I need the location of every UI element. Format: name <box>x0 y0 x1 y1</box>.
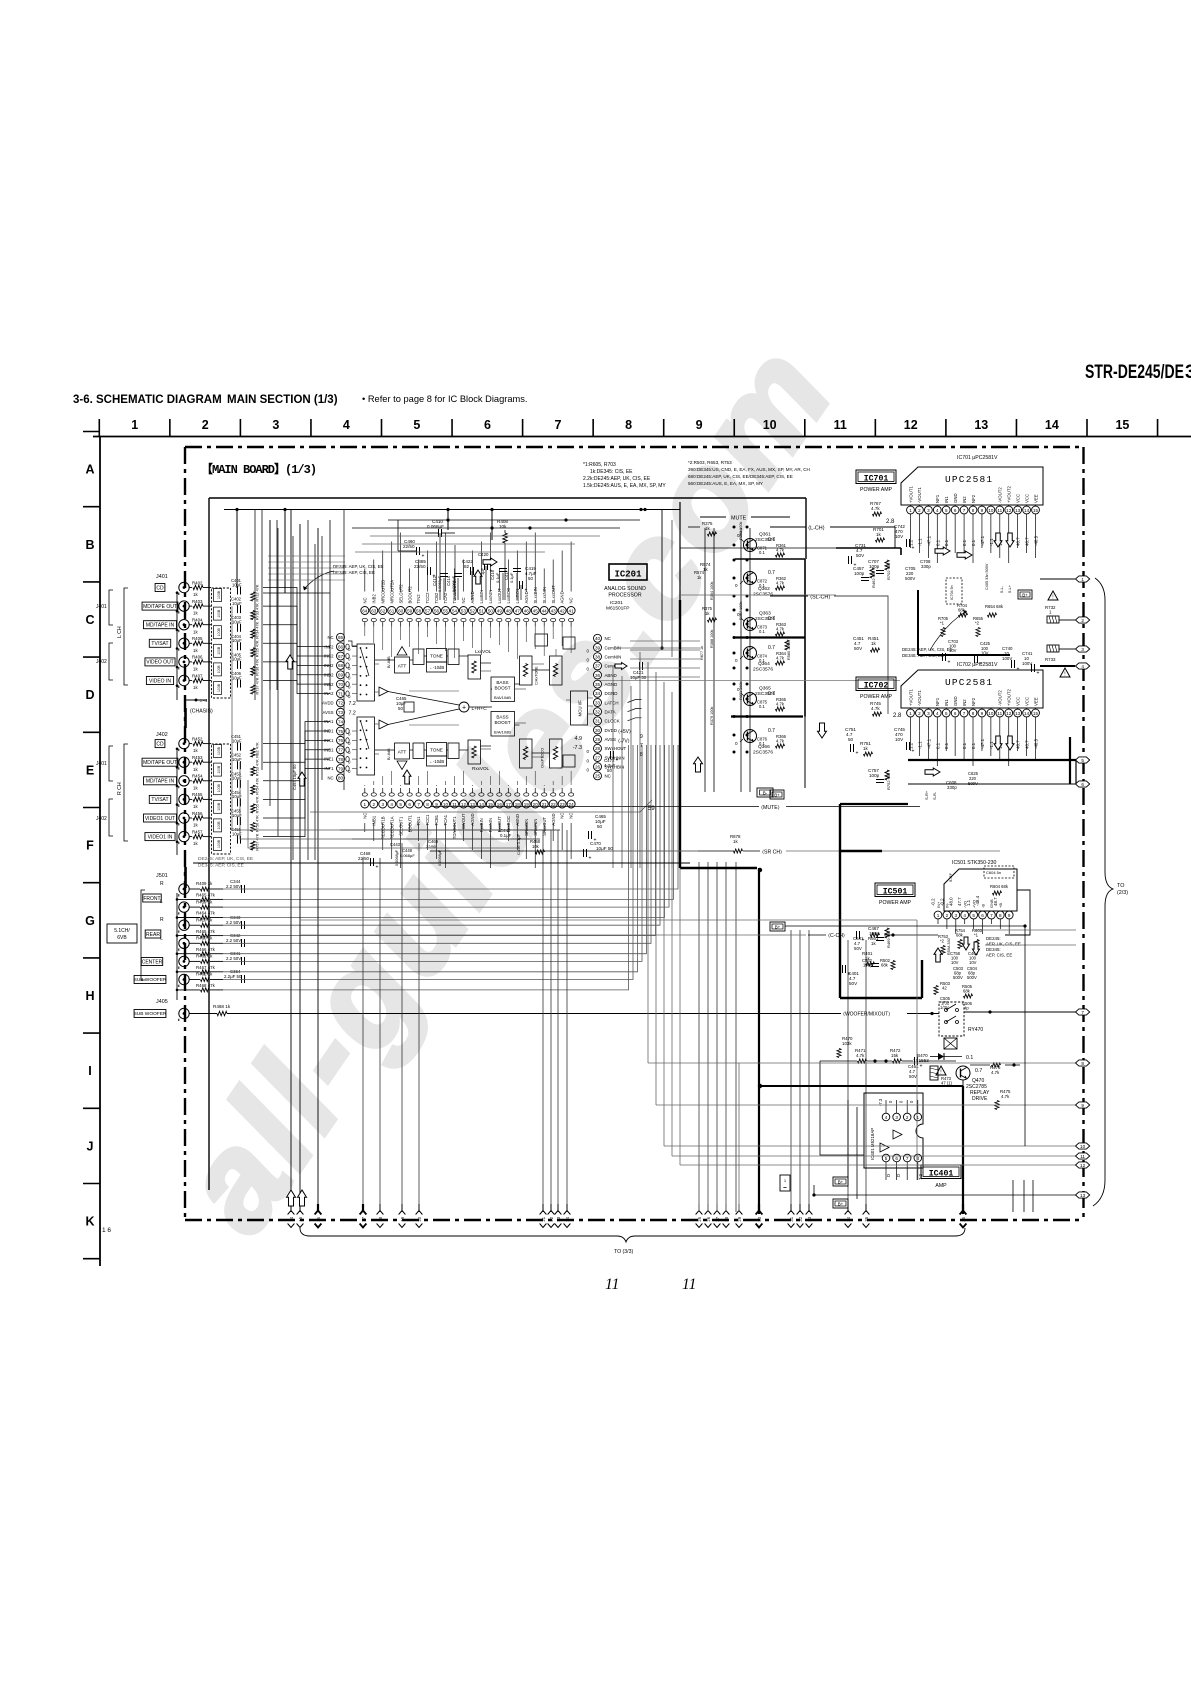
svg-text:5: 5 <box>1081 758 1084 763</box>
svg-text:12: 12 <box>1006 508 1012 513</box>
svg-text:41: 41 <box>569 608 575 613</box>
svg-text:7: 7 <box>906 1156 909 1161</box>
svg-text:61: 61 <box>389 608 395 613</box>
svg-text:R452: R452 <box>192 736 203 741</box>
svg-text:5: 5 <box>413 418 420 432</box>
svg-text:4: 4 <box>885 1115 888 1120</box>
svg-text:0.0068μF: 0.0068μF <box>395 849 399 866</box>
block arrow down right of transistors <box>818 723 827 738</box>
svg-text:10: 10 <box>1080 1144 1086 1149</box>
svg-text:+: + <box>376 865 379 871</box>
svg-text:0.1: 0.1 <box>759 704 765 709</box>
svg-text:1k: 1k <box>193 767 198 772</box>
svg-text:50V: 50V <box>909 1074 917 1079</box>
svg-text:R733: R733 <box>1045 657 1056 662</box>
svg-text:-VOUT2: -VOUT2 <box>998 487 1003 503</box>
capacitor C453 10uF 50 <box>237 780 239 788</box>
svg-text:-48.5: -48.5 <box>1034 535 1039 546</box>
svg-text:12: 12 <box>1006 711 1012 716</box>
svg-text:17: 17 <box>361 1216 366 1221</box>
svg-text:H: H <box>85 989 94 1003</box>
svg-text:50: 50 <box>597 824 603 829</box>
svg-text:CENTER: CENTER <box>142 959 163 965</box>
svg-text:IC702 μPC2581V: IC702 μPC2581V <box>957 662 998 668</box>
svg-text:TCC2: TCC2 <box>425 592 430 604</box>
svg-text:IC701: IC701 <box>864 475 889 484</box>
relay RY470 dashed box <box>939 1002 964 1036</box>
IC201 internal selector block upper <box>357 644 375 701</box>
svg-text:8: 8 <box>972 508 975 513</box>
jack speaker 1 <box>179 884 189 894</box>
svg-text:13: 13 <box>974 418 988 432</box>
svg-text:J501: J501 <box>156 873 168 879</box>
jack VIDEO IN L-ch <box>179 675 189 685</box>
connector header CN dashed box R <box>212 744 231 854</box>
connector 21 bottom edge <box>542 1204 544 1211</box>
svg-text:1: 1 <box>937 913 940 918</box>
wire AGND long bus <box>193 862 690 864</box>
IC201 internal RxxVOL lower <box>468 740 481 764</box>
svg-text:-47.1: -47.1 <box>980 738 985 749</box>
svg-text:4.7k: 4.7k <box>856 1053 865 1058</box>
warning triangle a <box>1048 591 1058 600</box>
svg-text:42: 42 <box>560 608 566 613</box>
svg-text:AEP, CIS, EE: AEP, CIS, EE <box>986 953 1012 958</box>
svg-text:7: 7 <box>417 802 420 807</box>
svg-text:⟨WOOFER/MIXOUT⟩: ⟨WOOFER/MIXOUT⟩ <box>843 1012 890 1018</box>
jack speaker 3 <box>179 920 189 930</box>
transistor Q362 2SC3576 <box>744 572 757 585</box>
svg-text:R CH: R CH <box>117 782 123 795</box>
svg-text:DE245: AEP, UK, CIS, EE: DE245: AEP, UK, CIS, EE <box>902 647 953 652</box>
svg-text:100B: 100B <box>217 590 221 599</box>
svg-text:31: 31 <box>789 1216 794 1221</box>
svg-text:34: 34 <box>595 691 601 696</box>
svg-text:+: + <box>856 751 859 757</box>
svg-text:5: 5 <box>945 711 948 716</box>
svg-text:NC: NC <box>362 597 367 603</box>
svg-text:1k: 1k <box>193 841 198 846</box>
jack CD L-ch <box>179 582 189 592</box>
svg-text:CD: CD <box>156 741 164 747</box>
wire IC501 gray outputs <box>975 929 1076 931</box>
svg-text:55: 55 <box>443 608 449 613</box>
svg-text:PROCESSOR: PROCESSOR <box>608 593 641 599</box>
svg-text:100B: 100B <box>217 646 221 655</box>
svg-text:50V: 50V <box>856 553 865 558</box>
svg-text:SUB WOOFER: SUB WOOFER <box>134 977 167 983</box>
svg-text:BASS: BASS <box>496 680 508 685</box>
svg-text:-1.1: -1.1 <box>989 538 994 546</box>
svg-text:-1.1: -1.1 <box>917 741 922 749</box>
svg-text:680:DE245:AEP, UK, CIS, EE/DE3: 680:DE245:AEP, UK, CIS, EE/DE345:AEP, CI… <box>688 474 793 479</box>
wire thick vertical right of IC702 <box>1069 737 1071 784</box>
svg-text:22/50: 22/50 <box>403 544 415 549</box>
resistor R756 47k <box>251 823 255 832</box>
svg-text:10μF 50: 10μF 50 <box>630 675 647 680</box>
connector 36 bottom edge <box>962 1204 964 1211</box>
IC201 internal bus wires <box>375 649 593 761</box>
main board dash-dot border <box>185 446 1084 448</box>
svg-text:4.7k: 4.7k <box>776 702 785 707</box>
svg-text:0.7: 0.7 <box>768 645 775 651</box>
wire top horizontals <box>388 519 640 521</box>
svg-text:12: 12 <box>1080 1163 1086 1168</box>
svg-text:10μF: 10μF <box>232 776 242 781</box>
svg-text:28: 28 <box>724 1216 729 1221</box>
svg-text:B+: B+ <box>1022 593 1028 598</box>
jack VIDEO OUT L-ch <box>179 657 189 667</box>
svg-text:IC501 STK350-230: IC501 STK350-230 <box>952 860 997 866</box>
svg-text:0.1: 0.1 <box>759 658 765 663</box>
wire thick vertical to connector 36 <box>962 1086 964 1214</box>
warning triangle b <box>1060 668 1070 677</box>
svg-text:82: 82 <box>464 564 470 569</box>
block arrow right IC702 <box>925 768 940 776</box>
svg-text:FRONT: FRONT <box>143 896 160 902</box>
wire vertical comb left routing <box>255 510 344 861</box>
svg-text:4: 4 <box>936 508 939 513</box>
jack CD R-ch <box>179 738 189 748</box>
svg-text:NC: NC <box>461 597 466 603</box>
svg-text:TO (3/3): TO (3/3) <box>614 1249 633 1255</box>
svg-text:VEE: VEE <box>1033 697 1038 706</box>
svg-text:• Refer to page 8 for IC Block: • Refer to page 8 for IC Block Diagrams. <box>362 394 528 404</box>
svg-text:76: 76 <box>338 738 344 743</box>
connector 34 bottom edge <box>847 1204 849 1211</box>
svg-text:2: 2 <box>202 418 209 432</box>
svg-text:1k:DE345: CIS, EE: 1k:DE345: CIS, EE <box>590 469 633 475</box>
svg-text:1: 1 <box>131 418 138 432</box>
svg-text:103k: 103k <box>842 1041 852 1046</box>
op-amp IC201 label box <box>609 564 647 580</box>
svg-text:3: 3 <box>272 418 279 432</box>
svg-text:330p: 330p <box>921 564 931 569</box>
wire vertical riser col3 <box>284 510 286 594</box>
svg-text:⟨MUTE⟩: ⟨MUTE⟩ <box>761 805 780 811</box>
svg-text:*1: *1 <box>974 933 979 938</box>
svg-text:15: 15 <box>1033 508 1039 513</box>
wire IC702 second out <box>908 783 1076 785</box>
svg-text:9: 9 <box>696 418 703 432</box>
wire B+ line <box>785 925 1025 927</box>
block arrow down IC701 b <box>1006 533 1014 547</box>
svg-text:R364 100k: R364 100k <box>710 582 714 600</box>
svg-text:NC: NC <box>569 813 574 819</box>
svg-text:4.7k: 4.7k <box>1001 1094 1010 1099</box>
svg-text:1k: 1k <box>193 667 198 672</box>
IC201 internal selector block lower <box>357 717 375 775</box>
svg-text:C420: C420 <box>478 552 489 557</box>
label small connector box <box>780 1175 790 1191</box>
row ruler line <box>99 437 101 1267</box>
svg-text:1k: 1k <box>193 592 198 597</box>
svg-text:1k: 1k <box>876 532 882 537</box>
svg-text:REAR: REAR <box>146 932 160 938</box>
transistor Q361 2SC3576 <box>744 539 757 552</box>
svg-text:9: 9 <box>1081 1103 1084 1108</box>
wire jack to board <box>189 836 192 838</box>
svg-text:14: 14 <box>1045 418 1059 432</box>
svg-text:0.1: 0.1 <box>935 539 940 546</box>
svg-text:47: 47 <box>515 608 521 613</box>
svg-text:9: 9 <box>981 508 984 513</box>
svg-text:100B: 100B <box>217 765 221 774</box>
svg-text:+: + <box>616 758 619 764</box>
svg-text:500V: 500V <box>967 975 977 980</box>
svg-text:NC: NC <box>605 636 611 641</box>
wire jack to board <box>189 761 192 763</box>
svg-text:TV/SAT: TV/SAT <box>151 641 168 647</box>
svg-text:9: 9 <box>640 734 643 740</box>
svg-text:2: 2 <box>918 508 921 513</box>
svg-text:C604 5n: C604 5n <box>986 870 1001 875</box>
svg-text:0.1: 0.1 <box>759 741 765 746</box>
svg-text:1k: 1k <box>193 685 198 690</box>
svg-text:42: 42 <box>942 986 947 991</box>
svg-text:45: 45 <box>533 608 539 613</box>
svg-text:18: 18 <box>515 802 521 807</box>
connector 19 bottom edge <box>401 1204 403 1211</box>
svg-text:100B: 100B <box>217 802 221 811</box>
svg-text:7: 7 <box>1081 1010 1084 1015</box>
wire IC701 input bus <box>836 547 901 549</box>
svg-text:R733 47K: R733 47K <box>256 603 260 620</box>
curve arrow R705 <box>930 612 965 650</box>
svg-text:21: 21 <box>542 802 548 807</box>
svg-text:(CHASIS): (CHASIS) <box>190 709 213 715</box>
svg-text:R459 1k: R459 1k <box>196 899 213 904</box>
svg-text:DRIVE: DRIVE <box>972 1096 988 1102</box>
svg-text:R654 68k: R654 68k <box>985 604 1004 609</box>
svg-text:1: 1 <box>1081 577 1084 582</box>
svg-text:14: 14 <box>1024 711 1030 716</box>
svg-text:IC201: IC201 <box>610 600 623 606</box>
svg-text:75: 75 <box>338 729 344 734</box>
svg-text:!: ! <box>1064 672 1065 678</box>
svg-text:30: 30 <box>757 1216 762 1221</box>
IC201 internal buffer upper <box>379 687 388 696</box>
svg-text:⟨+5V⟩: ⟨+5V⟩ <box>618 729 631 735</box>
svg-text:DE345:: DE345: <box>986 947 1001 952</box>
IC201 internal mixer node <box>459 702 469 712</box>
svg-text:7: 7 <box>963 711 966 716</box>
wire gray horizontals mid <box>600 680 900 682</box>
svg-text:16: 16 <box>497 802 503 807</box>
svg-text:R468 1k: R468 1k <box>213 1004 231 1009</box>
svg-text:+: + <box>848 972 851 978</box>
svg-text:50: 50 <box>398 706 403 711</box>
svg-text:28: 28 <box>595 746 601 751</box>
jack MD/TAPE OUT L-ch <box>179 601 189 611</box>
svg-text:-48.5: -48.5 <box>1034 738 1039 749</box>
svg-text:1 6: 1 6 <box>102 1227 111 1234</box>
svg-text:2.8: 2.8 <box>893 713 902 719</box>
wire left long verticals from bus <box>270 520 330 690</box>
svg-text:22/50: 22/50 <box>414 564 426 569</box>
svg-text:48: 48 <box>506 608 512 613</box>
wire jack to board <box>189 798 192 800</box>
svg-text:DE245:: DE245: <box>986 936 1001 941</box>
svg-text:100B: 100B <box>217 839 221 848</box>
svg-text:R455: R455 <box>192 792 203 797</box>
svg-text:NF2: NF2 <box>971 494 976 503</box>
svg-text:22: 22 <box>551 802 557 807</box>
svg-text:79: 79 <box>338 766 344 771</box>
svg-text:7: 7 <box>963 508 966 513</box>
warning triangle Q470 <box>936 1066 946 1075</box>
svg-text:10V: 10V <box>895 737 904 742</box>
svg-text:1k: 1k <box>193 648 198 653</box>
svg-text:R50A 330: R50A 330 <box>947 938 951 955</box>
svg-text:10μF: 10μF <box>232 638 242 643</box>
svg-text:10μF: 10μF <box>232 620 242 625</box>
svg-text:1k: 1k <box>871 941 876 946</box>
svg-text:71: 71 <box>338 691 344 696</box>
jack speaker 6 <box>179 974 189 984</box>
column ruler line <box>93 436 1191 438</box>
svg-text:3: 3 <box>927 508 930 513</box>
svg-text:8: 8 <box>999 913 1002 918</box>
svg-text:14: 14 <box>479 802 485 807</box>
capacitor C404 10uF <box>237 642 239 650</box>
IC401 top pins 4-1 <box>882 1113 890 1121</box>
svg-text:IN1: IN1 <box>944 699 949 706</box>
svg-text:+: + <box>912 546 915 552</box>
wire horizontal runs jacks to IC201 <box>263 588 330 837</box>
svg-text:4.7k: 4.7k <box>871 506 880 511</box>
svg-text:CemNIN: CemNIN <box>605 654 622 659</box>
svg-text:0.1: 0.1 <box>944 742 949 749</box>
svg-text:15: 15 <box>298 1216 303 1221</box>
svg-text:-47.1: -47.1 <box>926 535 931 546</box>
transistor Q363 2SC3576 <box>744 618 757 631</box>
svg-text:1: 1 <box>364 802 367 807</box>
svg-text:77: 77 <box>338 748 344 753</box>
svg-text:CLOCK: CLOCK <box>605 719 620 724</box>
svg-text:BASS: BASS <box>496 715 508 720</box>
connector 2 right edge <box>1076 617 1090 623</box>
svg-text:NC: NC <box>327 775 333 780</box>
bracket 5.1ch group <box>141 890 145 980</box>
svg-text:←-10dB: ←-10dB <box>429 759 445 764</box>
connector 3 right edge <box>1076 646 1090 652</box>
svg-text:TONE: TONE <box>430 748 443 753</box>
svg-text:4: 4 <box>343 418 350 432</box>
svg-text:3: 3 <box>381 802 384 807</box>
svg-text:10V: 10V <box>969 960 977 965</box>
wire drops to 8-12 <box>648 868 680 1165</box>
svg-text:10: 10 <box>988 711 994 716</box>
capacitor C472 4.7uF 50 <box>610 751 612 759</box>
svg-text:59: 59 <box>407 608 413 613</box>
svg-text:GND: GND <box>953 493 958 503</box>
svg-text:0.1μF: 0.1μF <box>509 572 514 583</box>
svg-text:34: 34 <box>846 1216 851 1221</box>
IC201 internal pin descent wires top <box>365 626 571 659</box>
IC201 bottom pin row pins 1-24 <box>361 788 575 808</box>
svg-text:+: + <box>912 749 915 755</box>
svg-text:B+: B+ <box>775 925 781 930</box>
svg-text:B/A/10dB: B/A/10dB <box>494 730 511 735</box>
svg-text:9: 9 <box>435 802 438 807</box>
svg-text:IC401 M5218AP: IC401 M5218AP <box>870 1128 875 1160</box>
svg-text:AEP, UK, CIS, EE: AEP, UK, CIS, EE <box>986 942 1021 947</box>
wire latch data clock stubs <box>628 699 642 702</box>
svg-text:50: 50 <box>607 768 612 773</box>
svg-text:5: 5 <box>399 802 402 807</box>
svg-text:1k: 1k <box>871 641 877 646</box>
svg-text:I: I <box>88 1064 91 1078</box>
svg-text:3: 3 <box>895 1115 898 1120</box>
svg-text:4.7k: 4.7k <box>776 656 785 661</box>
svg-text:50V: 50V <box>854 946 862 951</box>
svg-text:36: 36 <box>595 673 601 678</box>
IC702 pin stub wires <box>911 717 1036 766</box>
svg-text:⟨SR CH⟩: ⟨SR CH⟩ <box>762 850 782 856</box>
svg-text:R410 1k: R410 1k <box>196 917 213 922</box>
svg-text:8: 8 <box>426 802 429 807</box>
wire bottom-left horizontals from IC201 <box>232 606 560 848</box>
svg-text:500V: 500V <box>905 576 915 581</box>
svg-text:1: 1 <box>909 508 912 513</box>
wire riser C460 <box>398 550 405 552</box>
svg-text:32: 32 <box>595 709 601 714</box>
svg-text:6: 6 <box>895 1156 898 1161</box>
wire IC501 thick bus <box>839 804 841 998</box>
svg-text:F: F <box>86 839 94 853</box>
svg-text:ABND: ABND <box>605 673 617 678</box>
IC201 internal volume pots upper <box>520 656 533 685</box>
svg-text:-7.3: -7.3 <box>573 745 582 751</box>
connector 6 right edge <box>1076 781 1090 787</box>
svg-text:VIDEO OUT: VIDEO OUT <box>146 660 174 666</box>
svg-text:24: 24 <box>565 1216 570 1221</box>
svg-text:3-6. SCHEMATIC DIAGRAM: 3-6. SCHEMATIC DIAGRAM <box>73 394 222 406</box>
svg-text:DVDD: DVDD <box>605 728 617 733</box>
svg-text:2.2k:DE245:AEP, UK, CIS, EE: 2.2k:DE245:AEP, UK, CIS, EE <box>583 476 651 482</box>
op-amp IC401 body <box>864 1093 923 1168</box>
resistor R735 47k <box>251 648 255 657</box>
svg-text:72: 72 <box>338 701 344 706</box>
IC201 internal BASS BOOST upper <box>491 677 515 702</box>
svg-text:ANALOG SOUND: ANALOG SOUND <box>604 586 646 592</box>
svg-text:10k: 10k <box>532 844 540 849</box>
wire sub woofer to relay <box>189 1013 217 1015</box>
svg-text:*2:R503, R653, R753: *2:R503, R653, R753 <box>688 460 732 465</box>
svg-text:48.7: 48.7 <box>1025 537 1030 546</box>
svg-text:IC401: IC401 <box>929 1170 954 1179</box>
svg-text:RY470: RY470 <box>968 1027 983 1033</box>
svg-text:3: 3 <box>1185 362 1191 383</box>
svg-text:R737 47K: R737 47K <box>256 677 260 694</box>
svg-text:-VOUT2: -VOUT2 <box>998 690 1003 706</box>
svg-text:BOOST: BOOST <box>494 686 510 691</box>
wire jack to board <box>189 680 192 682</box>
svg-text:IN2: IN2 <box>962 496 967 503</box>
svg-text:39: 39 <box>595 645 601 650</box>
svg-text:68k: 68k <box>963 989 971 994</box>
svg-text:【MAIN BOARD】(1/3): 【MAIN BOARD】(1/3) <box>201 461 316 477</box>
svg-text:R756 47K: R756 47K <box>256 815 260 832</box>
wire R875 feed <box>688 526 700 528</box>
wire woofer line to relay <box>907 1013 939 1015</box>
wire bus B risers <box>447 510 449 531</box>
svg-text:C414: C414 <box>446 575 451 586</box>
svg-text:78: 78 <box>338 757 344 762</box>
svg-text:27: 27 <box>715 1216 720 1221</box>
connector 5 right edge <box>1076 757 1090 763</box>
